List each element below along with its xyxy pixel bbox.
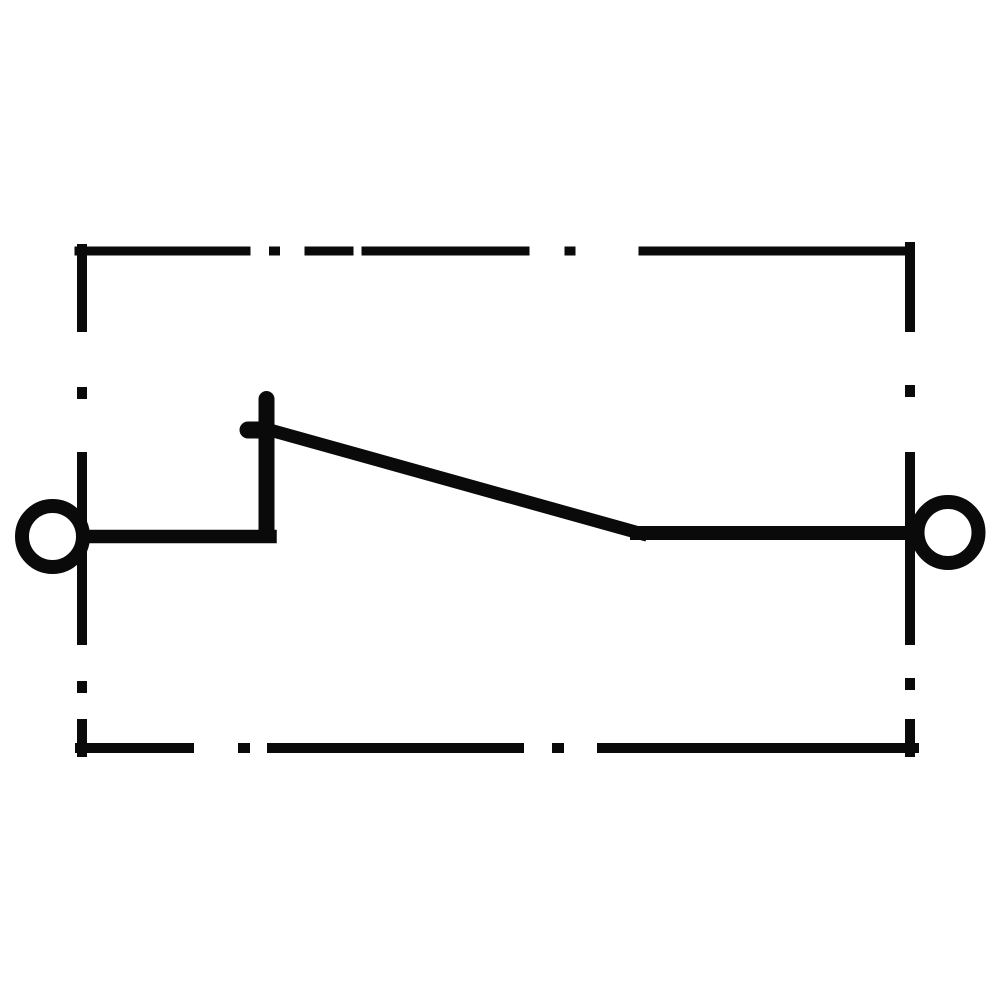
enclosure dash-dot border, bottom edge: [80, 743, 914, 753]
terminal ring left: [22, 506, 83, 567]
switch S: moving lever blade: [268, 430, 641, 534]
wire from left terminal to switch post: [85, 530, 270, 544]
switch S: fixed contact post: [259, 399, 275, 535]
enclosure dash-dot border, right edge: [905, 247, 915, 752]
enclosure dash-dot border, top edge: [79, 247, 910, 256]
enclosure dash-dot border, left edge: [77, 249, 87, 752]
terminal ring right: [918, 502, 979, 563]
switch S: contact stub: [248, 422, 259, 439]
wire from lever end to right terminal: [637, 526, 912, 540]
